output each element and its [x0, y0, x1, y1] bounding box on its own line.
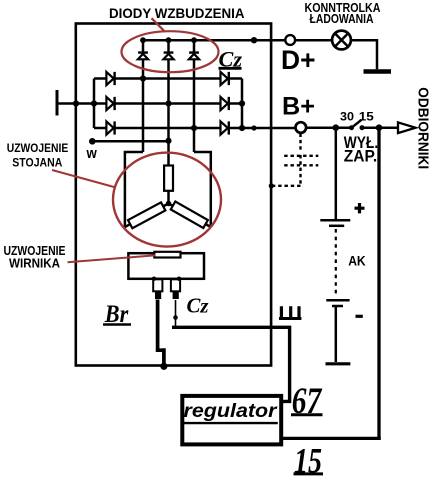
svg-text:UZWOJENIE: UZWOJENIE [7, 141, 69, 155]
svg-text:30: 30 [340, 111, 354, 123]
svg-text:D+: D+ [281, 45, 316, 75]
svg-text:WIRNIKA: WIRNIKA [9, 256, 61, 271]
svg-text:ŁADOWANIA: ŁADOWANIA [310, 11, 374, 26]
svg-text:ODBIORNIKI: ODBIORNIKI [415, 87, 431, 169]
svg-text:w: w [86, 145, 97, 162]
svg-text:DIODY WZBUDZENIA: DIODY WZBUDZENIA [109, 6, 245, 21]
svg-text:AK: AK [348, 253, 366, 269]
svg-text:B+: B+ [282, 93, 315, 121]
svg-text:ZAP.: ZAP. [344, 146, 378, 165]
svg-text:STOJANA: STOJANA [12, 156, 62, 170]
svg-text:regulator: regulator [184, 400, 279, 422]
svg-text:15: 15 [359, 111, 375, 123]
svg-text:Cz: Cz [187, 293, 210, 317]
